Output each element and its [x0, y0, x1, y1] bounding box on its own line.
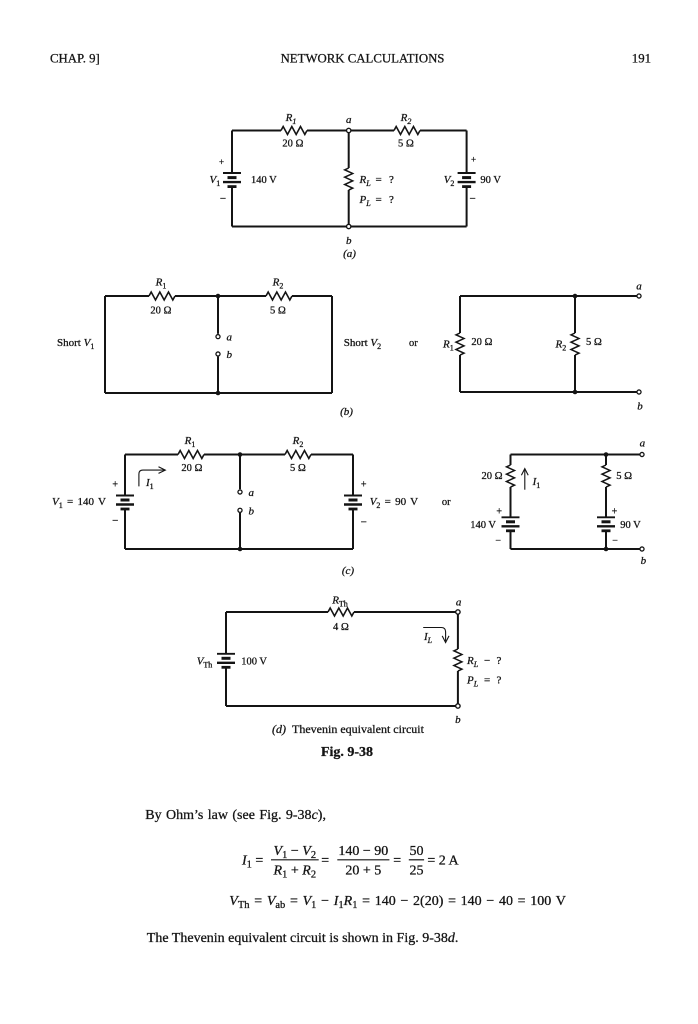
svg-text:b: b: [227, 349, 233, 361]
wire: fig a left branch lower: [231, 187, 233, 227]
svg-text:V1 = 140 V: V1 = 140 V: [52, 496, 106, 510]
svg-text:Short V1: Short V1: [57, 337, 94, 351]
resistor R2 fig b-left: [266, 292, 292, 300]
wire: fig b-right bottom: [460, 391, 637, 393]
terminal b fig b-right: [637, 390, 641, 394]
svg-text:V1 − V2: V1 − V2: [274, 844, 317, 861]
resistor R2 fig b-right: [571, 333, 579, 355]
equation fraction 1 bar: [271, 859, 319, 861]
svg-text:−: −: [469, 193, 475, 205]
terminal b fig d: [456, 704, 460, 708]
wire: fig b-left middle upper: [217, 296, 219, 334]
wire: fig a top right segment: [420, 130, 467, 132]
svg-text:By Ohm’s law (see Fig. 9-38c),: By Ohm’s law (see Fig. 9-38c),: [145, 808, 326, 823]
svg-text:VTh = Vab = V1 − I1R1 = 140 −: VTh = Vab = V1 − I1R1 = 140 − 2(20) = 14…: [229, 894, 566, 911]
svg-text:IL: IL: [423, 631, 433, 645]
svg-text:b: b: [346, 235, 352, 247]
wire: fig a middle branch lower: [348, 190, 350, 227]
wire: fig c-right bottom: [511, 548, 640, 550]
wire: fig b-left top segment 2: [175, 295, 266, 297]
svg-text:140 V: 140 V: [251, 175, 277, 186]
svg-text:(d) Thevenin equivalent circu: (d) Thevenin equivalent circuit: [272, 722, 425, 736]
wire: fig b-left middle lower: [217, 357, 219, 393]
node a fig a (open terminal): [347, 128, 351, 132]
svg-text:Fig. 9-38: Fig. 9-38: [321, 745, 373, 760]
svg-text:a: a: [346, 114, 352, 126]
wire: fig c-left right branch lower: [352, 509, 354, 549]
battery 140 V fig c-right: [502, 517, 520, 531]
svg-text:(b): (b): [340, 406, 353, 418]
svg-text:+: +: [112, 480, 118, 491]
wire: fig d right branch lower: [457, 671, 459, 704]
terminal a fig b-right: [637, 294, 641, 298]
equation fraction 2 bar: [337, 859, 389, 861]
svg-text:R1: R1: [285, 112, 297, 126]
current arrow I1 up fig c-right: [521, 469, 528, 490]
svg-text:20 + 5: 20 + 5: [345, 864, 381, 879]
svg-text:25: 25: [410, 864, 424, 879]
terminal a fig c-right: [640, 452, 644, 456]
svg-text:R2: R2: [555, 339, 567, 353]
svg-text:V2: V2: [444, 174, 455, 188]
resistor R1 fig b-left: [149, 292, 175, 300]
resistor R2 fig c-left: [285, 451, 311, 459]
terminal a fig c-left: [238, 490, 242, 494]
svg-text:5 Ω: 5 Ω: [270, 306, 286, 317]
battery V2 fig a: [458, 173, 476, 187]
terminal b fig b-left: [216, 352, 220, 356]
svg-text:CHAP. 9]: CHAP. 9]: [50, 52, 100, 66]
svg-text:R2: R2: [272, 277, 284, 291]
svg-text:a: a: [456, 597, 462, 609]
resistor RTh fig d: [328, 608, 354, 616]
svg-text:V1: V1: [210, 174, 221, 188]
svg-text:b: b: [455, 714, 461, 726]
svg-text:+: +: [361, 480, 367, 491]
wire: fig b-left left branch: [104, 296, 106, 393]
wire: fig a middle branch upper: [348, 131, 350, 169]
svg-text:R2: R2: [400, 112, 412, 126]
svg-text:=: =: [393, 854, 401, 869]
resistor RL fig d: [454, 649, 462, 671]
svg-text:5 Ω: 5 Ω: [616, 471, 632, 482]
svg-text:NETWORK CALCULATIONS: NETWORK CALCULATIONS: [281, 52, 445, 66]
junction dot top fig b-left: [216, 294, 221, 299]
wire: fig d bottom: [226, 705, 456, 707]
svg-text:R2: R2: [292, 435, 304, 449]
junction dot bottom fig c-left: [238, 547, 243, 552]
wire: fig b-right left branch lower: [459, 355, 461, 392]
resistor RL fig a: [345, 168, 353, 190]
wire: fig c-left top segment 2: [204, 454, 285, 456]
svg-text:V2 = 90 V: V2 = 90 V: [370, 496, 418, 510]
svg-text:Short V2: Short V2: [344, 337, 381, 351]
wire: fig c-right left branch upper stub: [510, 455, 512, 466]
wire: fig a bottom: [232, 226, 467, 228]
svg-text:20 Ω: 20 Ω: [181, 463, 202, 474]
wire: fig d top right segment: [354, 611, 456, 613]
svg-text:+: +: [496, 507, 502, 518]
svg-text:RL−?: RL−?: [466, 655, 502, 669]
svg-text:R1: R1: [442, 339, 454, 353]
svg-text:140 V: 140 V: [470, 520, 496, 531]
svg-text:5 Ω: 5 Ω: [586, 337, 602, 348]
svg-text:100 V: 100 V: [241, 657, 267, 668]
wire: fig d left branch lower: [225, 667, 227, 706]
wire: fig b-right left branch upper: [459, 296, 461, 333]
svg-text:a: a: [640, 438, 646, 450]
svg-text:(a): (a): [343, 248, 356, 260]
wire: fig a top left segment: [232, 130, 281, 132]
junction dot bottom fig c-right: [604, 547, 609, 552]
svg-text:R1: R1: [184, 435, 196, 449]
svg-text:or: or: [409, 338, 418, 349]
junction dot bottom fig b-left: [216, 391, 221, 396]
svg-text:+: +: [612, 507, 618, 518]
wire: fig d right branch upper: [457, 614, 459, 649]
terminal b fig c-left: [238, 508, 242, 512]
svg-text:−: −: [112, 515, 118, 527]
wire: fig c-left right branch upper: [352, 455, 354, 496]
terminal a fig d: [456, 610, 460, 614]
resistor R1 fig a: [281, 127, 307, 135]
current arrow IL fig d: [423, 628, 449, 643]
svg-text:PL=?: PL=?: [359, 194, 395, 208]
wire: fig b-left bottom: [105, 392, 332, 394]
svg-text:I1: I1: [145, 477, 154, 491]
wire: fig a top middle segment: [307, 130, 394, 132]
wire: fig c-right right branch upper stub: [605, 455, 607, 466]
svg-text:b: b: [249, 505, 255, 517]
wire: fig c-left bottom: [125, 548, 353, 550]
svg-text:−: −: [495, 536, 501, 547]
svg-text:or: or: [442, 497, 451, 508]
resistor R1 fig c-left: [178, 451, 204, 459]
svg-text:a: a: [227, 332, 233, 344]
wire: fig d top left segment: [226, 611, 328, 613]
svg-text:VTh: VTh: [197, 656, 213, 670]
wire: fig c-left left branch lower: [124, 509, 126, 549]
svg-text:20 Ω: 20 Ω: [482, 471, 503, 482]
svg-text:R1: R1: [155, 277, 167, 291]
wire: fig c-left middle upper: [239, 455, 241, 490]
svg-text:+: +: [471, 155, 476, 165]
equation fraction 3 bar: [409, 859, 424, 861]
wire: fig c-left top segment 1: [125, 454, 178, 456]
junction dot top fig b-right: [573, 294, 578, 299]
battery V1 fig c-left: [116, 496, 134, 510]
terminal a fig b-left: [216, 335, 220, 339]
wire: fig b-left top segment 3: [292, 295, 332, 297]
wire: fig d left branch upper: [225, 612, 227, 654]
svg-text:I1 =: I1 =: [241, 854, 263, 871]
battery VTh fig d: [217, 654, 235, 668]
svg-text:−: −: [361, 517, 367, 529]
svg-text:PL=?: PL=?: [466, 675, 502, 689]
svg-text:a: a: [249, 487, 255, 499]
wire: fig c-right left branch middle: [510, 487, 512, 517]
svg-text:20 Ω: 20 Ω: [471, 337, 492, 348]
svg-text:=: =: [321, 854, 329, 869]
svg-text:I1: I1: [532, 476, 541, 490]
wire: fig b-right middle branch lower: [574, 355, 576, 392]
resistor R2 fig a: [394, 127, 420, 135]
wire: fig a right branch lower: [466, 187, 468, 227]
wire: fig c-right top: [511, 454, 640, 456]
svg-text:+: +: [219, 157, 224, 167]
wire: fig c-left left branch upper: [124, 455, 126, 496]
wire: fig c-right right branch middle: [605, 487, 607, 517]
resistor R1 fig b-right: [456, 333, 464, 355]
svg-text:RL=?: RL=?: [359, 174, 395, 188]
svg-text:5 Ω: 5 Ω: [398, 139, 414, 150]
wire: fig a left branch upper: [231, 131, 233, 174]
svg-text:(c): (c): [342, 565, 355, 577]
terminal b fig c-right: [640, 547, 644, 551]
svg-text:90 V: 90 V: [480, 175, 501, 186]
svg-text:191: 191: [632, 52, 651, 66]
wire: fig c-right right branch lower: [605, 531, 607, 549]
svg-text:140 − 90: 140 − 90: [338, 844, 388, 859]
junction dot top fig c-right: [604, 452, 609, 457]
svg-text:The Thevenin equivalent circui: The Thevenin equivalent circuit is shown…: [147, 931, 459, 946]
battery V2 fig c-left: [344, 496, 362, 510]
junction dot top fig c-left: [238, 452, 243, 457]
svg-text:−: −: [612, 536, 618, 547]
svg-text:50: 50: [410, 844, 424, 859]
wire: fig c-right left branch lower: [510, 531, 512, 549]
svg-text:b: b: [641, 555, 647, 567]
junction dot bottom fig b-right: [573, 390, 578, 395]
svg-text:a: a: [636, 281, 642, 293]
svg-text:b: b: [637, 401, 643, 413]
svg-text:4 Ω: 4 Ω: [333, 622, 349, 633]
wire: fig a right branch upper: [466, 131, 468, 174]
wire: fig b-right top: [460, 295, 637, 297]
svg-text:20 Ω: 20 Ω: [282, 139, 303, 150]
node b fig a (open terminal): [347, 224, 351, 228]
wire: fig c-left top segment 3: [311, 454, 353, 456]
current arrow I1 fig c-left: [139, 467, 165, 487]
svg-text:RTh: RTh: [331, 595, 348, 609]
svg-text:R1 + R2: R1 + R2: [273, 864, 317, 881]
wire: fig b-left right branch: [331, 296, 333, 393]
battery 90 V fig c-right: [597, 517, 615, 531]
svg-text:90 V: 90 V: [620, 520, 641, 531]
svg-text:= 2 A: = 2 A: [427, 854, 459, 869]
wire: fig b-left top segment 1: [105, 295, 149, 297]
svg-text:5 Ω: 5 Ω: [290, 463, 306, 474]
svg-text:20 Ω: 20 Ω: [150, 306, 171, 317]
resistor 5 ohm fig c-right: [602, 465, 610, 487]
wire: fig b-right middle branch upper: [574, 296, 576, 333]
resistor 20 ohm fig c-right: [507, 465, 515, 487]
wire: fig c-left middle lower: [239, 513, 241, 549]
svg-text:−: −: [220, 193, 226, 205]
battery V1 fig a: [223, 173, 241, 187]
